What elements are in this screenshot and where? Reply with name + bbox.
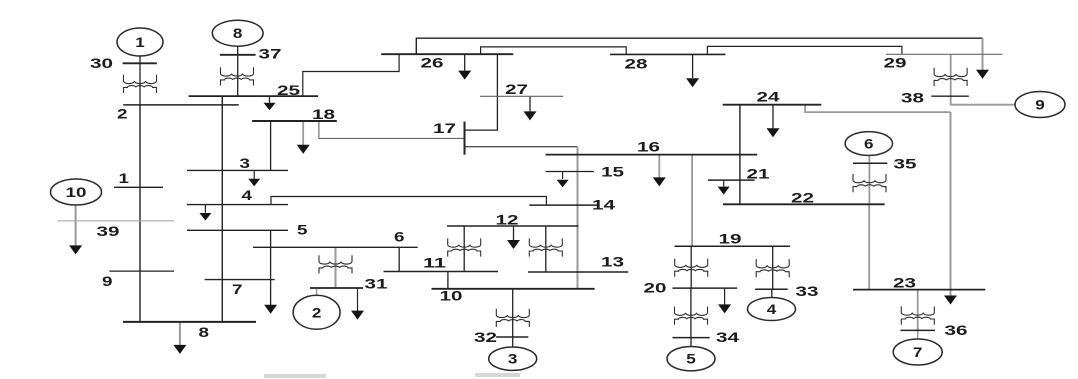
svg-text:12: 12 [496, 212, 519, 228]
bus 33 [755, 288, 788, 290]
svg-text:11: 11 [423, 255, 446, 271]
bus 31 [310, 287, 363, 289]
svg-text:28: 28 [625, 56, 648, 72]
bus 16 [546, 154, 758, 156]
generator G2 [293, 295, 340, 329]
bus 15 [546, 171, 594, 173]
svg-text:3: 3 [240, 155, 251, 171]
svg-text:36: 36 [945, 322, 968, 338]
svg-text:23: 23 [893, 275, 916, 291]
svg-text:31: 31 [365, 276, 388, 292]
bus 21 [708, 179, 755, 181]
bus 24 [723, 104, 822, 106]
wire 20-34 transformer lead [690, 288, 692, 338]
svg-text:18: 18 [312, 106, 335, 122]
svg-text:9: 9 [1035, 97, 1045, 113]
svg-text:8: 8 [233, 25, 243, 41]
bus 25 [189, 95, 318, 97]
svg-text:29: 29 [884, 55, 907, 71]
bus 20 [673, 287, 738, 289]
generator G3 [489, 347, 537, 370]
svg-text:10: 10 [440, 288, 463, 304]
wire gen7 lead [917, 330, 919, 339]
wire 2-1-39-9-8 vertical [139, 105, 141, 322]
bus 19 [675, 245, 791, 247]
wire 15-14-13-10 vertical [577, 147, 579, 289]
wire 19-20 transformer lead [690, 246, 692, 288]
svg-text:7: 7 [913, 344, 923, 360]
bus 12 [447, 225, 579, 227]
bus 29 [886, 53, 1003, 55]
svg-text:3: 3 [508, 351, 518, 367]
wire 10-11 [447, 272, 449, 289]
transformer T22-35 [853, 174, 886, 192]
load arrow gen10/bus39 [75, 206, 77, 247]
wire 25-26 [303, 54, 399, 96]
bus 17 (vertical bar) [464, 122, 466, 155]
wire 28-29 [707, 46, 902, 54]
svg-text:21: 21 [747, 166, 770, 182]
svg-text:8: 8 [199, 324, 210, 340]
svg-text:19: 19 [719, 231, 742, 247]
bus 6 and line 5-6 [253, 246, 418, 248]
load arrow at right end of 26-29 line [982, 38, 984, 70]
generator G4 [748, 298, 796, 321]
svg-text:5: 5 [297, 222, 308, 238]
transformer T31 (6-31) [319, 255, 352, 273]
svg-text:1: 1 [135, 34, 145, 50]
wire 3-18 [270, 121, 272, 170]
transformer T10-32 [496, 309, 529, 327]
load arrow bus 8 [179, 322, 181, 346]
svg-text:5: 5 [686, 351, 696, 367]
svg-text:14: 14 [592, 197, 615, 213]
bus 32 [496, 336, 528, 338]
bus 3 [187, 169, 288, 171]
wire gen8 to bus25 (through T37) [237, 46, 239, 96]
transformer T12-11 [448, 238, 481, 256]
wire 26-27-17 [465, 54, 498, 130]
bus 36 [900, 329, 935, 331]
watermark smudge right [475, 373, 520, 377]
wire 10-32 transformer lead [512, 289, 514, 347]
load arrow bus 4 [204, 205, 206, 213]
svg-text:34: 34 [716, 329, 739, 345]
wire gen5 lead [690, 338, 692, 347]
svg-text:20: 20 [644, 280, 667, 296]
bus 10 [432, 288, 595, 290]
bus 37 [220, 54, 256, 56]
load arrow bus 28 [692, 54, 694, 78]
bus 1 [114, 186, 163, 188]
bus 30 [123, 62, 157, 64]
bus 34 [673, 337, 710, 339]
bus 39 [58, 220, 175, 222]
wire 25-2-3-4-5-8 vertical [221, 96, 223, 322]
bus 8 [123, 321, 256, 323]
svg-text:35: 35 [894, 156, 917, 172]
watermark smudge left [264, 374, 326, 378]
load arrow bus 15 [562, 172, 564, 180]
transformer T23-36 [901, 306, 934, 324]
bus 26 [381, 53, 513, 55]
svg-text:38: 38 [901, 90, 924, 106]
wire 17-18 [319, 121, 465, 138]
transformer T20-34 [675, 307, 708, 325]
generator G10 [51, 179, 102, 205]
load arrow bus 18 [302, 121, 304, 146]
wire 24-16-21-22 vertical [739, 105, 741, 205]
bus 13 [528, 271, 628, 273]
transformer T19-33 [756, 259, 789, 277]
svg-text:26: 26 [421, 55, 444, 71]
load arrow bus 27 [529, 96, 531, 112]
wire 12-11 transformer lead [463, 226, 465, 272]
generator G9 [1015, 92, 1065, 118]
svg-text:10: 10 [66, 184, 87, 200]
bus 18 [252, 120, 337, 122]
generator G7 [893, 339, 942, 365]
transformer T19-20 [675, 259, 708, 277]
bus 5 [187, 229, 288, 231]
wire 17 to 15/14 chain horizontal [465, 146, 578, 148]
bus 14 [529, 204, 598, 206]
load arrow bus 16 [658, 155, 660, 179]
transformer T30 (2-30) [124, 75, 157, 93]
load arrow bus 21 [723, 180, 725, 186]
svg-text:1: 1 [119, 170, 130, 186]
svg-text:24: 24 [757, 89, 780, 105]
svg-text:4: 4 [767, 301, 777, 317]
wire 12-13 transformer lead [545, 226, 547, 272]
svg-text:7: 7 [232, 281, 243, 297]
wire 22-23 [868, 204, 870, 289]
svg-text:30: 30 [90, 55, 113, 71]
bus 4 [187, 204, 288, 206]
wire gen6-35-22 (through T35) [868, 155, 870, 204]
svg-text:2: 2 [312, 304, 322, 320]
load arrow bus 20 [724, 288, 726, 305]
load arrow bus 12 [513, 226, 515, 241]
transformer T12-13 [529, 238, 562, 256]
load arrow bus 3 [253, 170, 255, 178]
generator G8 [212, 20, 263, 46]
load arrow bus 25 [269, 96, 271, 103]
svg-text:16: 16 [637, 139, 660, 155]
svg-text:6: 6 [864, 136, 874, 152]
svg-text:27: 27 [505, 81, 528, 97]
wire 4-14 [271, 197, 546, 206]
wire bus6 to bus31 (through T31) [335, 247, 337, 288]
svg-text:33: 33 [796, 283, 819, 299]
svg-text:22: 22 [791, 190, 814, 206]
bus 27 [480, 95, 563, 97]
svg-text:13: 13 [601, 254, 624, 270]
svg-text:6: 6 [394, 229, 405, 245]
generator G1 [117, 28, 163, 56]
svg-text:15: 15 [601, 164, 624, 180]
svg-text:32: 32 [474, 329, 497, 345]
bus 9 [109, 270, 174, 272]
wire gen2 lead [316, 288, 318, 296]
load arrow bus 26 [464, 54, 466, 70]
svg-text:4: 4 [242, 187, 253, 203]
load arrow bus 24 [772, 105, 774, 129]
bus 7 [205, 279, 275, 281]
bus 2 [123, 104, 239, 106]
wire gen1 to bus2 (through T30) [139, 56, 141, 105]
bus 28 [610, 53, 725, 55]
bus 38 [931, 95, 969, 97]
bus 22 [723, 203, 885, 205]
svg-text:37: 37 [259, 46, 282, 62]
wire 26-28 [481, 47, 627, 55]
transformer T37 (25-37) [221, 67, 254, 85]
svg-text:17: 17 [433, 120, 456, 136]
wire gen4 lead [771, 289, 773, 298]
svg-text:25: 25 [277, 82, 300, 98]
wire 24-23 with load arrow [805, 105, 950, 112]
transformer T29-38 [934, 68, 967, 86]
generator G6 [845, 132, 892, 156]
wire bus5 load through bus7 with arrow [270, 230, 272, 305]
bus 23 [853, 289, 985, 291]
bus 11 [384, 271, 499, 273]
wire 19-33 transformer lead [772, 246, 774, 289]
bus 35 [853, 162, 887, 164]
wire 29-38 transformer lead [950, 54, 952, 96]
svg-text:2: 2 [117, 106, 128, 122]
svg-text:9: 9 [102, 273, 113, 289]
svg-text:39: 39 [97, 223, 120, 239]
wire 26-29 top line [416, 38, 982, 54]
wire 23-36 transformer lead [917, 290, 919, 331]
generator G5 [667, 347, 715, 371]
load arrow bus 31 [357, 288, 359, 312]
wire 16-19 [691, 155, 693, 247]
wire 38 to gen9 [951, 96, 1015, 105]
wire 6-11 [398, 247, 400, 271]
